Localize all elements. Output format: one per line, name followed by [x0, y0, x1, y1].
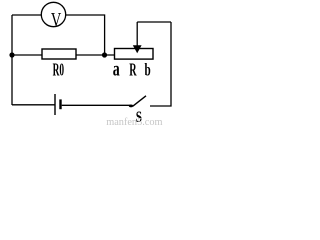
wire: middle horizontal row through R0 to rheostat: [12, 54, 115, 56]
switch label S: [136, 108, 143, 125]
wire: top right from slider to right rail: [137, 21, 171, 23]
terminal label b: [145, 61, 151, 80]
wire: bottom left to battery: [12, 104, 55, 106]
node: junction dot right (voltmeter / R0 / rheostat): [102, 52, 107, 57]
svg-text:R0: R0: [53, 61, 64, 81]
rheostat label R: [129, 61, 137, 81]
voltmeter label V: [51, 8, 62, 31]
svg-text:a: a: [113, 57, 120, 81]
wire: voltmeter right terminal across and down to node: [66, 15, 105, 55]
switch S blade (open): [133, 96, 146, 106]
svg-text:manfen5.com: manfen5.com: [106, 117, 162, 126]
voltmeter U1 circle: [41, 2, 65, 26]
svg-text:R: R: [129, 61, 137, 81]
node: junction dot left (battery branch / R0 / voltmeter): [9, 52, 14, 57]
terminal label a: [113, 57, 120, 81]
svg-text:b: b: [145, 61, 151, 80]
rheostat R body: [115, 49, 154, 60]
wire: battery to switch pivot: [62, 104, 131, 106]
rheostat slider arrowhead: [133, 45, 142, 53]
switch S pivot dot: [129, 105, 133, 108]
resistor R0 body: [42, 49, 76, 59]
rheostat slider wire: [136, 22, 138, 46]
battery BT1 long plate: [54, 94, 56, 115]
wire: right vertical rail down to switch contact: [150, 22, 171, 106]
value label R0: [53, 61, 64, 81]
wire: top horizontal to voltmeter left terminal: [12, 14, 41, 16]
svg-text:V: V: [51, 8, 62, 31]
battery BT1 short plate: [59, 99, 61, 109]
wire: left vertical branch (battery negative riser): [11, 15, 13, 105]
